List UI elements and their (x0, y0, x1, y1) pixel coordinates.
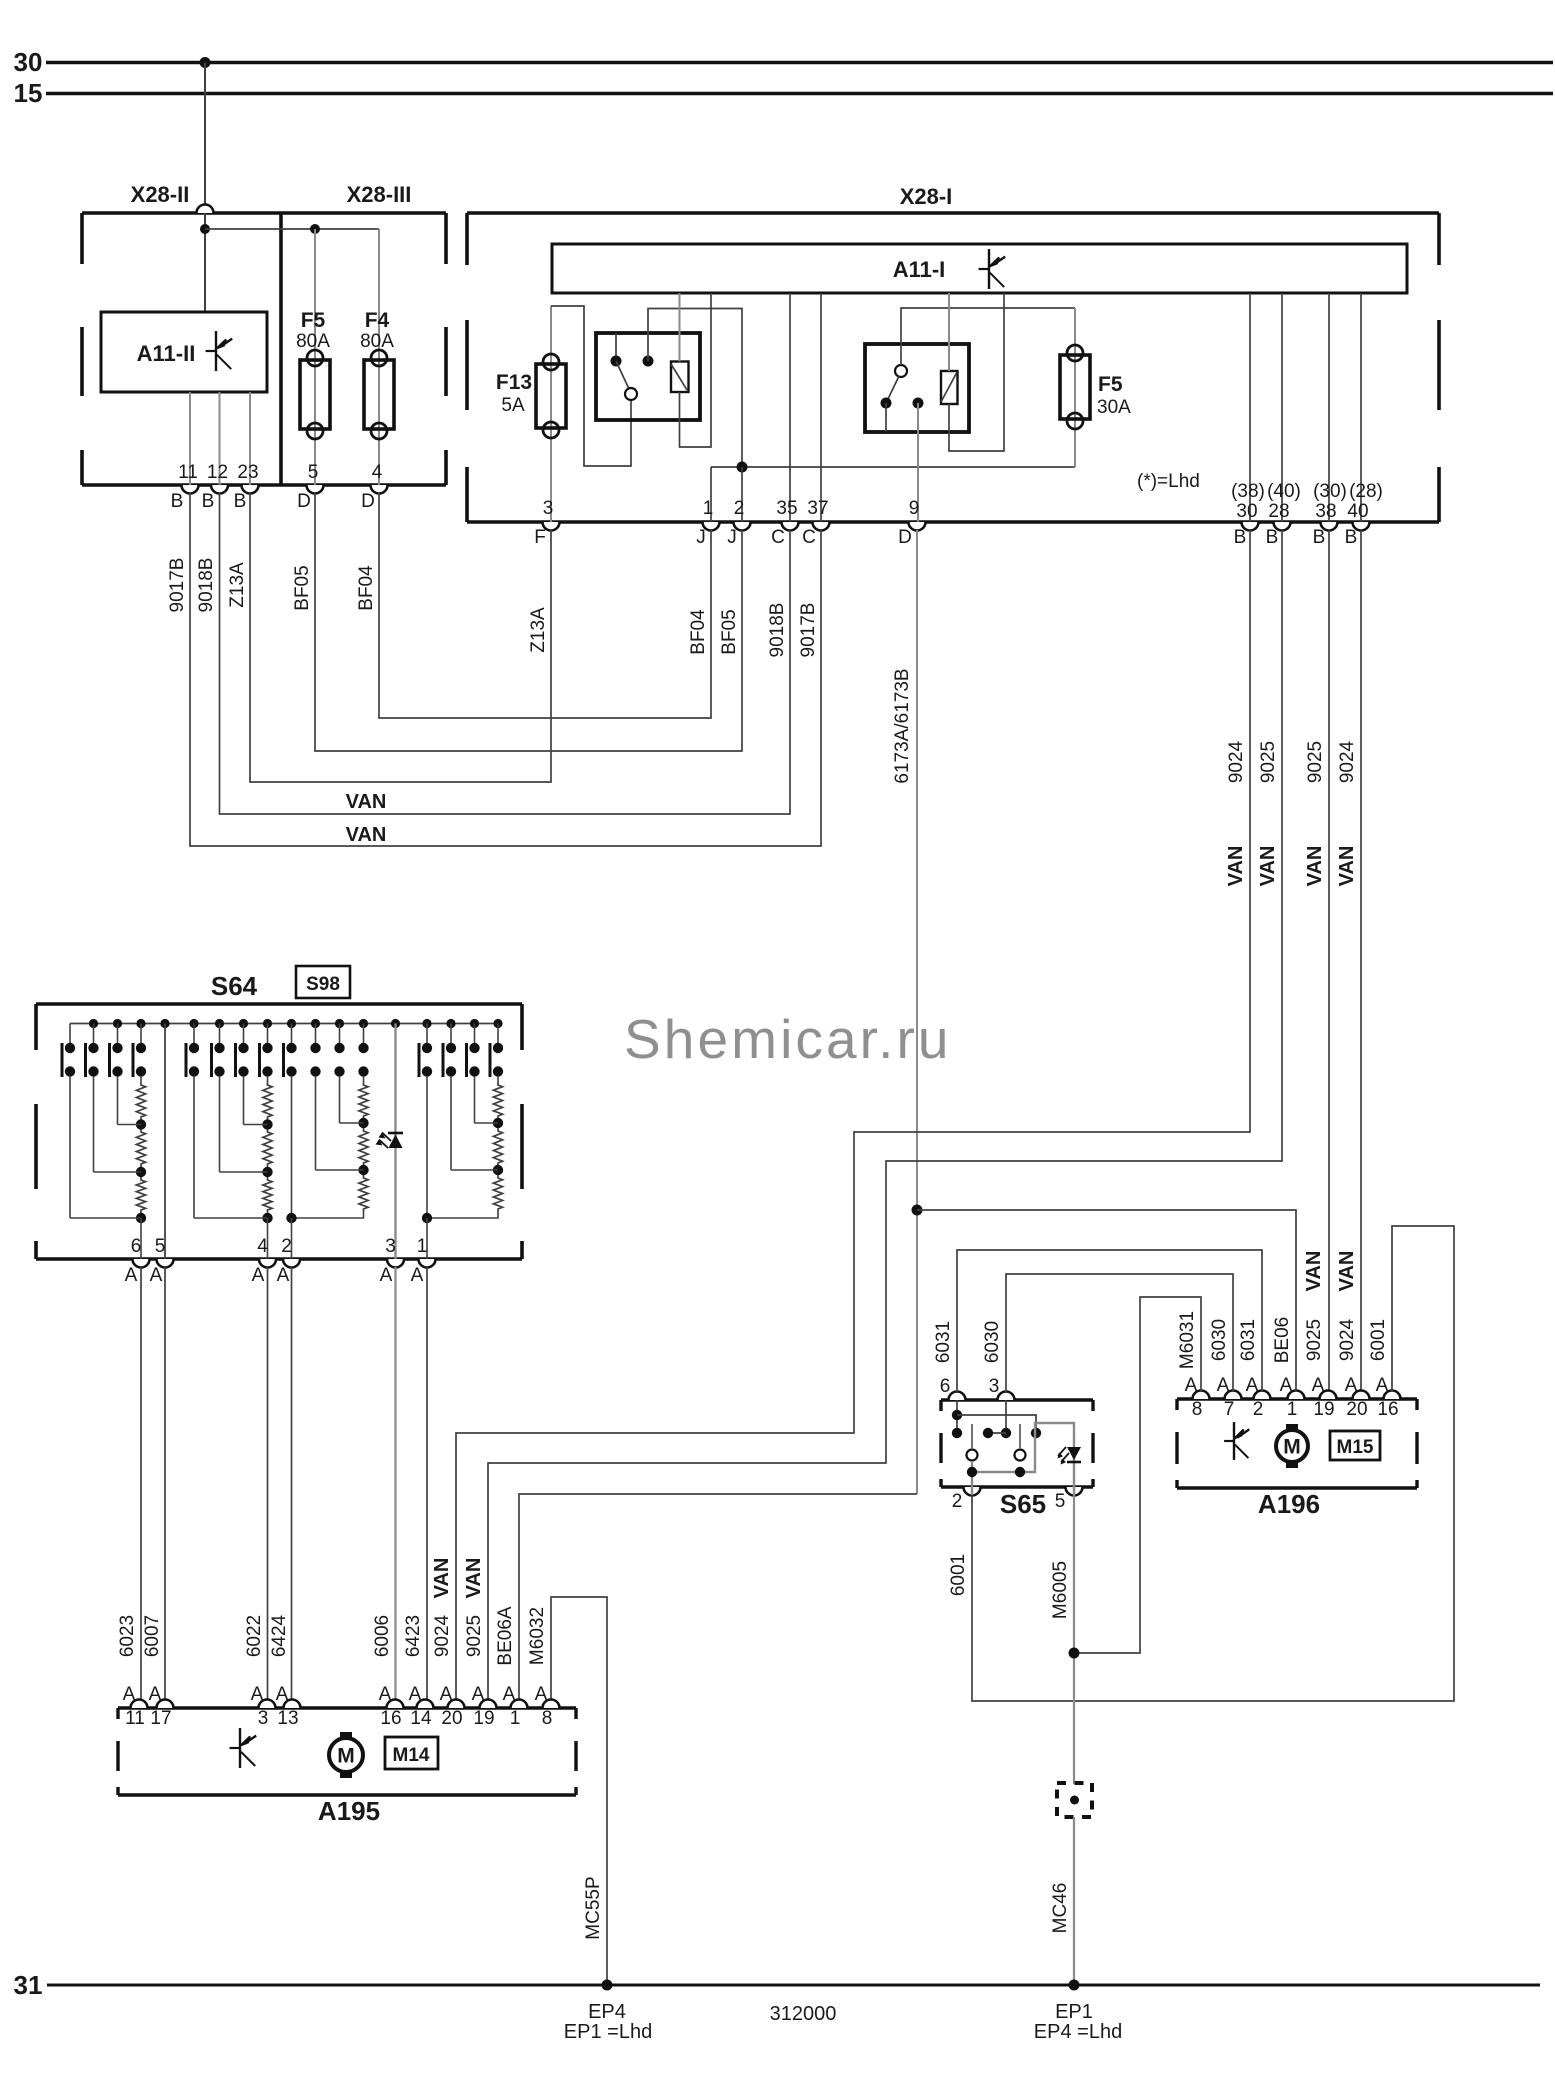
svg-text:3: 3 (543, 498, 554, 519)
svg-text:8: 8 (1192, 1399, 1203, 1420)
K1 fixed contact 2 (643, 356, 654, 367)
wire BF05 pin5 to pin2 (315, 493, 742, 751)
svg-text:20: 20 (1346, 1399, 1367, 1420)
svg-text:6031: 6031 (933, 1321, 954, 1363)
K1 fixed contact 1 (615, 333, 617, 361)
A196 pins (1193, 1391, 1210, 1400)
svg-text:BF04: BF04 (688, 609, 709, 655)
svg-text:A: A (123, 1684, 136, 1705)
svg-text:X28-I: X28-I (900, 184, 953, 209)
svg-text:8: 8 (542, 1708, 553, 1729)
svg-text:VAN: VAN (1336, 846, 1358, 887)
svg-text:312000: 312000 (770, 2003, 837, 2025)
K1 coil return (680, 293, 712, 447)
svg-text:80A: 80A (296, 331, 330, 352)
svg-text:A: A (1345, 1375, 1358, 1396)
svg-text:3: 3 (989, 1376, 1000, 1397)
switch S65 (941, 1398, 1093, 1401)
svg-text:9025: 9025 (1305, 741, 1326, 783)
svg-text:6: 6 (131, 1236, 142, 1257)
svg-text:6007: 6007 (142, 1615, 163, 1657)
svg-text:9025: 9025 (1258, 741, 1279, 783)
connector housing X28-II (82, 211, 281, 215)
svg-text:M15: M15 (1337, 1437, 1374, 1458)
svg-text:16: 16 (380, 1708, 401, 1729)
wire bus30 to X28-II (204, 63, 206, 206)
svg-text:(40): (40) (1267, 481, 1301, 502)
svg-text:C: C (802, 527, 816, 548)
control unit A196 (1177, 1397, 1417, 1400)
wire A11-I to pin 35 (789, 293, 791, 522)
svg-text:A: A (503, 1684, 516, 1705)
svg-text:B: B (1313, 527, 1326, 548)
svg-text:13: 13 (277, 1708, 298, 1729)
svg-text:S65: S65 (1000, 1489, 1046, 1519)
control unit A195 (118, 1706, 576, 1709)
svg-text:9024: 9024 (1226, 740, 1247, 783)
svg-text:1: 1 (417, 1236, 428, 1257)
relay box S98 (296, 966, 350, 998)
junction 6173/BE06 (912, 1205, 923, 1216)
fuse F5 80A (314, 229, 316, 485)
svg-text:X28-II: X28-II (131, 182, 190, 207)
wire 9025 pin38 to A196 pin19 (1328, 530, 1330, 1391)
svg-text:6023: 6023 (117, 1615, 138, 1657)
wire 6006 (394, 1267, 396, 1700)
svg-text:VAN: VAN (1225, 846, 1247, 887)
svg-text:6424: 6424 (269, 1614, 290, 1657)
svg-text:BE06: BE06 (1272, 1317, 1293, 1363)
wire M6031 (1075, 1297, 1201, 1653)
K2 fixed contact 2 (pin 9 feed) (913, 398, 924, 409)
svg-text:(*)=Lhd: (*)=Lhd (1137, 471, 1200, 492)
svg-text:9024: 9024 (432, 1614, 453, 1657)
svg-text:5A: 5A (501, 395, 525, 416)
svg-text:9018B: 9018B (196, 558, 217, 613)
svg-text:9: 9 (909, 498, 920, 519)
wire 6001 (972, 1226, 1454, 1701)
S65 common gray path (971, 1461, 973, 1495)
svg-text:15: 15 (14, 78, 43, 108)
svg-text:9017B: 9017B (798, 603, 819, 658)
A195 motor M (340, 1732, 352, 1739)
wire 6030 (1006, 1274, 1233, 1392)
svg-text:VAN: VAN (1336, 1251, 1358, 1292)
svg-text:6030: 6030 (1209, 1319, 1230, 1361)
svg-text:F: F (534, 527, 546, 548)
K1 movable arm (616, 361, 629, 389)
svg-text:11: 11 (125, 1708, 145, 1729)
ground EP1 (1069, 1980, 1080, 1991)
svg-text:30A: 30A (1097, 397, 1131, 418)
svg-text:EP1 =Lhd: EP1 =Lhd (564, 2021, 652, 2043)
junction on bus 30 (200, 57, 211, 68)
svg-text:6001: 6001 (948, 1554, 969, 1596)
feed-through bump on X28-II top (197, 205, 214, 213)
svg-text:20: 20 (441, 1708, 462, 1729)
S64 pin 1 lead (426, 1218, 428, 1259)
svg-text:2: 2 (734, 498, 745, 519)
group3 resistor chain (363, 1076, 365, 1082)
svg-text:F5: F5 (1098, 373, 1123, 396)
A196 tag M15 (1330, 1431, 1380, 1460)
svg-text:31: 31 (14, 1970, 43, 2000)
svg-text:VAN: VAN (346, 824, 387, 846)
svg-text:4: 4 (372, 462, 383, 483)
svg-text:7: 7 (1224, 1399, 1235, 1420)
svg-text:M: M (1283, 1436, 1301, 1459)
svg-text:A: A (379, 1684, 392, 1705)
svg-text:A: A (1217, 1375, 1230, 1396)
svg-text:A11-I: A11-I (893, 257, 946, 282)
S64 bus junctions (89, 1019, 98, 1028)
svg-text:A195: A195 (318, 1796, 380, 1826)
svg-text:B: B (1345, 527, 1358, 548)
svg-text:35: 35 (776, 498, 797, 519)
S65 pins bottom (964, 1487, 981, 1496)
node inside X28-II (204, 213, 206, 312)
svg-text:5: 5 (308, 462, 319, 483)
S65 internal node from pin 3 (1005, 1400, 1007, 1433)
fuse F5 30A (1074, 308, 1076, 467)
K2 coil feed (948, 293, 950, 371)
svg-text:2: 2 (1253, 1399, 1264, 1420)
inline connector on MC46 (1057, 1783, 1092, 1817)
wire 9018B pin12 to pin35 (220, 493, 791, 814)
svg-text:1: 1 (510, 1708, 521, 1729)
connector housing X28-III (281, 211, 446, 215)
svg-text:M6031: M6031 (1177, 1311, 1198, 1369)
K1 coil feed (679, 293, 681, 362)
svg-text:VAN: VAN (1303, 1251, 1325, 1292)
wire MC46 (1073, 1817, 1075, 1985)
svg-text:9025: 9025 (464, 1615, 485, 1657)
svg-text:(28): (28) (1349, 481, 1383, 502)
wire BF04 pin4 to pin1 (379, 493, 711, 718)
svg-text:F13: F13 (496, 371, 532, 394)
wire 6423 (426, 1267, 428, 1700)
wire 9017B pin11 to pin37 (190, 493, 821, 846)
svg-text:M6032: M6032 (527, 1607, 548, 1665)
svg-text:80A: 80A (360, 331, 394, 352)
svg-text:6173A/6173B: 6173A/6173B (892, 668, 913, 783)
svg-text:BF05: BF05 (292, 565, 313, 610)
bus 15 (ignition +) (46, 92, 1553, 95)
svg-text:6: 6 (940, 1376, 951, 1397)
svg-text:MC46: MC46 (1050, 1883, 1071, 1934)
svg-text:B: B (234, 491, 247, 512)
group4 resistor chain (497, 1076, 499, 1082)
svg-text:3: 3 (385, 1236, 396, 1257)
svg-text:A: A (125, 1265, 138, 1286)
svg-text:5: 5 (1055, 1491, 1066, 1512)
K1 coil (671, 362, 689, 393)
svg-text:19: 19 (473, 1708, 494, 1729)
svg-text:BF05: BF05 (719, 609, 740, 654)
svg-text:F5: F5 (301, 309, 326, 332)
svg-text:6006: 6006 (372, 1615, 393, 1657)
svg-text:EP1: EP1 (1055, 2001, 1093, 2023)
A11-II pin stub 23 (249, 392, 251, 485)
svg-text:1: 1 (1287, 1399, 1298, 1420)
svg-text:D: D (361, 491, 375, 512)
svg-text:9024: 9024 (1337, 740, 1358, 783)
wires A11-I to pins 30 28 38 40 (1249, 293, 1251, 522)
svg-text:F4: F4 (365, 309, 390, 332)
wire 9024 pin40 to A196 pin20 (1360, 530, 1362, 1391)
svg-text:1: 1 (703, 498, 714, 519)
wire F13 to relay contact (551, 306, 631, 466)
bus 31 (ground) (47, 1984, 1540, 1987)
fuse F13 5A (550, 306, 552, 522)
svg-text:16: 16 (1377, 1399, 1398, 1420)
svg-text:Z13A: Z13A (227, 562, 248, 608)
svg-text:30: 30 (1236, 501, 1257, 522)
A196 motor M (1286, 1424, 1298, 1431)
control unit A11-II (101, 312, 267, 392)
svg-text:A: A (1246, 1375, 1259, 1396)
svg-text:6030: 6030 (982, 1321, 1003, 1363)
switch unit S64 housing (36, 1002, 522, 1006)
svg-text:9024: 9024 (1337, 1318, 1358, 1361)
svg-text:A: A (277, 1265, 290, 1286)
svg-text:J: J (727, 527, 737, 548)
svg-text:3: 3 (258, 1708, 269, 1729)
svg-text:14: 14 (410, 1708, 432, 1729)
svg-text:A: A (252, 1265, 265, 1286)
svg-text:A: A (1312, 1375, 1325, 1396)
group2 resistor chain (267, 1076, 269, 1082)
svg-text:9017B: 9017B (167, 558, 188, 613)
svg-text:VAN: VAN (346, 791, 387, 813)
wire 6023 (140, 1267, 142, 1700)
K2 contact wire to F5 30A (901, 308, 1075, 365)
svg-text:6022: 6022 (244, 1615, 265, 1657)
wire 6031 (957, 1250, 1262, 1392)
connector housing X28-I (467, 211, 1439, 215)
S65 switch contacts (971, 1424, 973, 1448)
svg-text:B: B (202, 491, 215, 512)
divider X28-II/X28-III (279, 213, 283, 485)
svg-text:(30): (30) (1313, 481, 1347, 502)
svg-text:A196: A196 (1258, 1489, 1320, 1519)
control unit A11-I (552, 244, 1407, 293)
wire BE06 branch (917, 1210, 1296, 1391)
wire 6424 (291, 1267, 293, 1700)
svg-text:12: 12 (207, 462, 228, 483)
svg-text:VAN: VAN (1257, 846, 1279, 887)
svg-text:2: 2 (281, 1236, 292, 1257)
S64 switch group 4 (426, 1024, 428, 1044)
S64 switch group 2 (193, 1024, 195, 1044)
svg-text:BE06A: BE06A (495, 1606, 516, 1665)
S64 pin 2 lead (291, 1218, 293, 1259)
wire 9024 pin30 to A195 pin20 (456, 530, 1250, 1700)
A196 transistor icon (1233, 1422, 1235, 1460)
K2 coil (941, 371, 958, 404)
svg-text:M14: M14 (393, 1745, 430, 1766)
svg-text:A: A (251, 1684, 264, 1705)
svg-text:30: 30 (14, 47, 43, 77)
svg-text:A: A (380, 1265, 393, 1286)
svg-text:A: A (472, 1684, 485, 1705)
svg-text:B: B (171, 491, 184, 512)
wire to pin 2 (741, 467, 743, 522)
K2 coil return (949, 293, 1004, 451)
wire Z13A pin23 to pin3 (250, 493, 551, 782)
svg-text:D: D (898, 527, 912, 548)
wire node to fuses (205, 228, 379, 230)
svg-text:A: A (440, 1684, 453, 1705)
A195 tag M14 (385, 1737, 438, 1769)
fuse F4 80A (378, 229, 380, 485)
S65 pins top (949, 1392, 966, 1401)
S64 pin 4 lead (267, 1218, 269, 1259)
svg-text:S98: S98 (306, 974, 340, 995)
K2 fixed contact 1 (881, 398, 892, 409)
wire 6022 (267, 1267, 269, 1700)
svg-text:Z13A: Z13A (528, 607, 549, 653)
svg-text:D: D (297, 491, 311, 512)
wire 9025 pin28 to A195 pin19 (488, 530, 1282, 1700)
A195 transistor icon (239, 1728, 241, 1768)
svg-text:9025: 9025 (1304, 1319, 1325, 1361)
svg-text:EP4: EP4 (588, 2001, 626, 2023)
svg-text:37: 37 (807, 498, 828, 519)
svg-text:19: 19 (1313, 1399, 1334, 1420)
A11-II pin stub 11 (189, 392, 191, 485)
svg-text:A: A (535, 1684, 548, 1705)
S64 switch group 3 (291, 1024, 293, 1044)
wire 6007 (164, 1267, 166, 1700)
S64 pin 5 lead (164, 1024, 166, 1260)
svg-text:A: A (1376, 1375, 1389, 1396)
wire to pin 1 (710, 467, 712, 522)
wire 6173A/6173B pin9 down (916, 530, 918, 1494)
svg-text:38: 38 (1315, 501, 1336, 522)
S65 LED (1067, 1447, 1081, 1460)
svg-text:6031: 6031 (1238, 1319, 1259, 1361)
svg-text:A11-II: A11-II (137, 341, 196, 366)
svg-text:M6005: M6005 (1050, 1561, 1071, 1619)
A195 pins (131, 1700, 148, 1709)
svg-text:B: B (1266, 527, 1279, 548)
S64 LED (388, 1132, 403, 1135)
svg-text:23: 23 (237, 462, 258, 483)
wire A11-I to pin 37 (820, 293, 822, 522)
svg-text:(38): (38) (1231, 481, 1265, 502)
svg-text:VAN: VAN (1304, 846, 1326, 887)
wire BE06A (519, 1494, 917, 1700)
svg-text:4: 4 (257, 1236, 268, 1257)
svg-text:Shemicar.ru: Shemicar.ru (624, 1008, 952, 1070)
svg-text:EP4 =Lhd: EP4 =Lhd (1034, 2021, 1122, 2043)
svg-text:40: 40 (1347, 501, 1368, 522)
svg-text:BF04: BF04 (356, 565, 377, 611)
svg-text:VAN: VAN (431, 1558, 453, 1599)
svg-text:2: 2 (952, 1491, 963, 1512)
wire M6005 (1073, 1495, 1075, 1784)
wire M6032/MC55P (551, 1597, 607, 1985)
S64 supply bus (70, 1023, 498, 1025)
svg-text:MC55P: MC55P (583, 1876, 604, 1939)
svg-text:S64: S64 (211, 971, 258, 1001)
svg-text:A: A (1185, 1375, 1198, 1396)
svg-text:11: 11 (178, 462, 198, 483)
svg-text:A: A (409, 1684, 422, 1705)
svg-text:5: 5 (155, 1236, 166, 1257)
svg-text:A: A (149, 1684, 162, 1705)
node pins 1-2 / F5 output (711, 466, 1075, 468)
svg-text:17: 17 (150, 1708, 171, 1729)
svg-text:6001: 6001 (1368, 1319, 1389, 1361)
svg-text:C: C (771, 527, 785, 548)
svg-text:VAN: VAN (463, 1558, 485, 1599)
svg-text:X28-III: X28-III (347, 182, 412, 207)
S64 pin 3 lead with LED (394, 1024, 396, 1260)
svg-text:6423: 6423 (403, 1615, 424, 1657)
A11-II pin stub 12 (219, 392, 221, 485)
bus 30 (battery +) (46, 61, 1553, 64)
svg-text:A: A (150, 1265, 163, 1286)
S65 internal node from pin 6 (956, 1400, 958, 1433)
ground EP4 (602, 1980, 613, 1991)
group1 resistor chain (140, 1076, 142, 1082)
svg-text:A: A (411, 1265, 424, 1286)
svg-text:28: 28 (1268, 501, 1289, 522)
S64 switch group 1 (69, 1024, 71, 1044)
K2 movable arm (895, 365, 907, 377)
svg-text:M: M (337, 1745, 355, 1768)
S64 pin 6 lead (140, 1218, 142, 1259)
svg-text:A: A (1280, 1375, 1293, 1396)
svg-text:9018B: 9018B (767, 603, 788, 658)
relay K1 (596, 333, 700, 420)
svg-text:B: B (1234, 527, 1247, 548)
relay K2 (865, 344, 969, 432)
svg-text:J: J (696, 527, 706, 548)
svg-text:A: A (276, 1684, 289, 1705)
